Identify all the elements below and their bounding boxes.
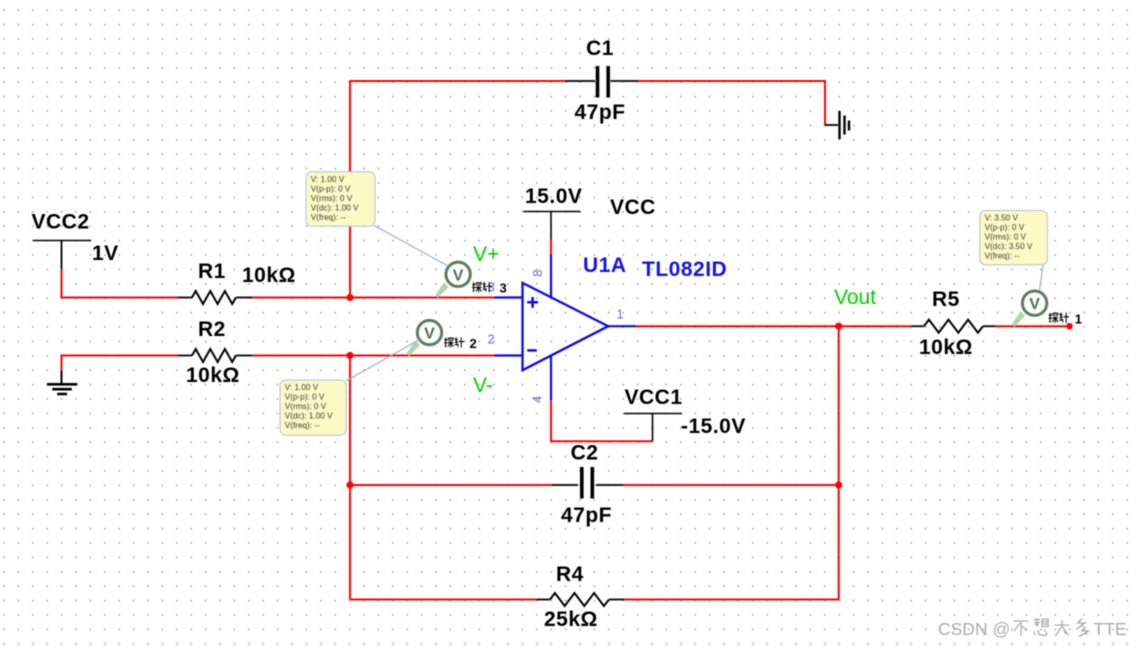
svg-text:V-: V- — [473, 374, 493, 397]
label R4 — [556, 563, 584, 586]
wire: R4 row left segment — [350, 599, 537, 601]
svg-text:V(freq): --: V(freq): -- — [985, 252, 1020, 261]
VCC2 source symbol — [33, 241, 91, 269]
value 25kΩ (R4) — [544, 608, 598, 631]
value 47pF (C1) — [574, 101, 625, 124]
resistor R5 — [912, 320, 996, 333]
svg-text:C2: C2 — [571, 442, 599, 465]
svg-text:V(freq): --: V(freq): -- — [311, 213, 346, 222]
svg-text:V(dc): 1.00 V: V(dc): 1.00 V — [285, 412, 333, 421]
value 10kΩ (R5) — [919, 336, 973, 359]
label U1A — [583, 254, 627, 277]
label R1 — [198, 260, 226, 283]
svg-text:15.0V: 15.0V — [525, 185, 582, 208]
label VCC — [610, 196, 656, 219]
svg-text:-15.0V: -15.0V — [681, 415, 746, 438]
svg-text:V(freq): --: V(freq): -- — [285, 421, 320, 430]
wire: R2 row from left ground — [62, 356, 179, 371]
wire: node B vertical down to feedback rows — [349, 356, 351, 600]
probe 探针2 (on - input) — [407, 320, 442, 356]
junction: node B / C2 row — [346, 481, 353, 488]
pin number 3 — [488, 280, 495, 295]
svg-text:V: 1.00 V: V: 1.00 V — [285, 383, 319, 392]
label R5 — [932, 288, 960, 311]
wire: C1 right lead to top-right ground corner — [638, 81, 825, 125]
leader line tooltip3 to probe 1 — [1040, 265, 1044, 291]
svg-text:V(p-p): 0 V: V(p-p): 0 V — [285, 393, 325, 402]
svg-text:R2: R2 — [198, 318, 226, 341]
svg-text:25kΩ: 25kΩ — [544, 608, 598, 631]
net label Vout — [834, 286, 876, 309]
svg-text:10kΩ: 10kΩ — [242, 264, 296, 287]
value 10kΩ (R2) — [186, 364, 240, 387]
junction: Vout / C2 row — [835, 481, 842, 488]
svg-text:VCC2: VCC2 — [32, 211, 90, 234]
net label V- — [473, 374, 493, 397]
wire: node A vertical up to C1 row and across to C1 left lead — [350, 81, 566, 298]
resistor R1 — [178, 291, 252, 304]
capacitor C2 — [552, 467, 623, 499]
resistor R2 — [178, 349, 252, 362]
label VCC2 — [32, 211, 90, 234]
svg-text:V(dc): 3.50 V: V(dc): 3.50 V — [985, 242, 1033, 251]
svg-text:V(rms): 0 V: V(rms): 0 V — [985, 233, 1027, 242]
terminal dot: output end — [1066, 323, 1073, 330]
tooltip box probe 3 readings — [306, 172, 375, 226]
wire: C2 row right segment — [623, 484, 838, 486]
VCC power symbol (pin 8) — [524, 212, 581, 240]
svg-text:2: 2 — [470, 336, 477, 351]
svg-text:10kΩ: 10kΩ — [186, 364, 240, 387]
value 10kΩ (R1) — [242, 264, 296, 287]
svg-text:VCC1: VCC1 — [625, 386, 683, 409]
svg-text:V(rms): 0 V: V(rms): 0 V — [285, 402, 327, 411]
pin number 4 — [530, 396, 545, 403]
wire: C2 row left segment — [350, 484, 552, 486]
svg-text:V(dc): 1.00 V: V(dc): 1.00 V — [311, 204, 359, 213]
svg-text:R1: R1 — [198, 260, 226, 283]
value 1V — [92, 242, 119, 265]
capacitor C1 — [566, 66, 639, 98]
probe 探针1 (on output) — [1012, 291, 1047, 327]
op-amp output lead (blue) — [608, 325, 636, 327]
ground (top right, rotated) — [825, 111, 849, 139]
watermark glyph 多 — [1076, 619, 1089, 637]
op-amp U1A triangle — [523, 283, 609, 370]
pin 4 lead (blue) — [550, 356, 552, 400]
wire: R2 to op-amp - input — [252, 355, 495, 357]
svg-text:8: 8 — [530, 270, 545, 277]
wire: R4 row right segment to output vertical — [624, 599, 839, 601]
svg-text:10kΩ: 10kΩ — [919, 336, 973, 359]
svg-text:V(p-p): 0 V: V(p-p): 0 V — [311, 184, 351, 193]
svg-text:V+: V+ — [473, 243, 499, 266]
watermark glyph 想 — [1034, 619, 1048, 636]
svg-text:1: 1 — [617, 307, 624, 322]
junction: node A (+ input) — [346, 294, 353, 301]
value 47pF (C2) — [561, 504, 612, 527]
probe label 探针2 — [444, 336, 477, 351]
leader line tooltip1 to probe 3 — [374, 226, 449, 267]
svg-text:TL082ID: TL082ID — [642, 258, 727, 281]
svg-text:1V: 1V — [92, 242, 119, 265]
junction: Vout node — [835, 323, 842, 330]
tooltip box probe 2 readings — [280, 380, 346, 435]
svg-text:3: 3 — [500, 281, 507, 296]
resistor R4 — [537, 593, 624, 606]
svg-text:TTE: TTE — [1094, 619, 1127, 639]
svg-text:C1: C1 — [586, 37, 614, 60]
junction: node B (- input) — [346, 352, 353, 359]
tooltip box probe 1 readings — [980, 211, 1048, 265]
watermark CSDN @不想太多TTE — [938, 619, 1127, 640]
op-amp U1A input leads (blue) — [495, 298, 523, 356]
wire: R1 to op-amp + input — [252, 297, 495, 299]
leader line tooltip2 to probe 2 — [346, 340, 420, 382]
net label V+ — [473, 243, 499, 266]
ground (left, below R2) — [47, 371, 77, 394]
wire: pin 4 red segment to VCC1 — [551, 400, 653, 441]
pin number 8 — [530, 270, 545, 277]
svg-text:CSDN @: CSDN @ — [938, 619, 1010, 639]
pin number 2 — [488, 332, 495, 347]
svg-text:47pF: 47pF — [561, 504, 612, 527]
svg-text:2: 2 — [488, 332, 495, 347]
pin 8 lead (blue) — [550, 255, 552, 298]
wire: VCC rail red segment above pin 8 — [550, 240, 552, 255]
wire: output vertical feedback — [838, 326, 840, 599]
svg-text:V(p-p): 0 V: V(p-p): 0 V — [985, 223, 1025, 232]
wire: VCC2 source to R1 row — [62, 269, 179, 298]
svg-text:V: 1.00 V: V: 1.00 V — [311, 175, 345, 184]
svg-text:V: 3.50 V: V: 3.50 V — [985, 214, 1019, 223]
probe label 探针1 — [1049, 311, 1082, 326]
label TL082ID — [642, 258, 727, 281]
watermark glyph 不 — [1014, 621, 1029, 636]
VCC1 power symbol (pin 4) — [624, 414, 682, 442]
wire: op-amp output to R5 — [636, 325, 912, 327]
svg-text:R4: R4 — [556, 563, 584, 586]
svg-text:V(rms): 0 V: V(rms): 0 V — [311, 194, 353, 203]
svg-text:Vout: Vout — [834, 286, 876, 309]
value -15.0V — [681, 415, 746, 438]
pin number 1 — [617, 307, 624, 322]
wire: R5 to output terminal — [995, 325, 1069, 327]
svg-text:U1A: U1A — [583, 254, 627, 277]
svg-text:47pF: 47pF — [574, 101, 625, 124]
value 15.0V — [525, 185, 582, 208]
svg-text:VCC: VCC — [610, 196, 656, 219]
probe label 探针3 — [472, 281, 507, 296]
svg-text:1: 1 — [1075, 311, 1082, 326]
svg-text:R5: R5 — [932, 288, 960, 311]
svg-text:3: 3 — [488, 280, 495, 295]
svg-text:4: 4 — [530, 396, 545, 403]
label R2 — [198, 318, 226, 341]
label VCC1 — [625, 386, 683, 409]
label C1 — [586, 37, 614, 60]
watermark glyph 太 — [1055, 620, 1070, 636]
label C2 — [571, 442, 599, 465]
probe 探针3 (on + input) — [435, 262, 470, 298]
